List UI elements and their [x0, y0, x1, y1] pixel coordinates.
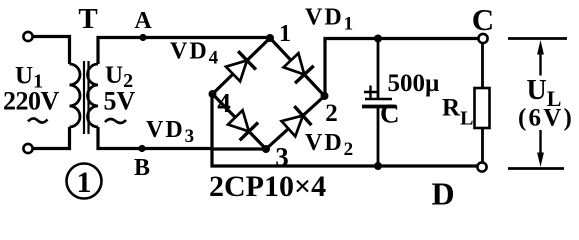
svg-text:3: 3	[275, 142, 289, 172]
svg-text:C: C	[472, 2, 494, 37]
diode VD3	[228, 110, 258, 140]
svg-text:D: D	[431, 176, 454, 212]
bridge edge 4-3	[213, 94, 267, 149]
bridge node 2 dot	[321, 92, 329, 100]
UL arrow up	[539, 48, 541, 76]
resistor RL body	[475, 88, 490, 128]
capacitor bottom junction dot	[374, 162, 382, 170]
wire node 2 riser and top rail to C	[325, 39, 479, 97]
diode VD1	[284, 53, 314, 83]
svg-text:2CP10×4: 2CP10×4	[209, 170, 326, 203]
figure number circle 1	[67, 164, 102, 199]
terminal D	[477, 162, 486, 171]
svg-text:1: 1	[279, 21, 291, 47]
terminal C	[478, 34, 487, 43]
svg-text:220V: 220V	[3, 87, 60, 116]
svg-text:C: C	[380, 99, 400, 129]
UL arrow down	[539, 130, 541, 159]
UL reference line top	[508, 37, 567, 40]
capacitor C bottom lead	[377, 107, 380, 167]
wire node 3 to junction	[212, 147, 266, 150]
bridge node 4 dot	[209, 90, 217, 98]
transformer core	[84, 61, 89, 134]
wire node 4 down and bottom rail to D	[212, 94, 478, 166]
diode VD2	[282, 106, 312, 136]
wire primary bottom lead	[33, 127, 70, 149]
label ac tilde secondary	[105, 119, 126, 123]
bridge node 3 dot	[262, 145, 270, 153]
resistor RL top lead	[481, 43, 484, 88]
node A junction dot	[139, 34, 146, 41]
capacitor polarity plus	[364, 86, 378, 99]
resistor RL bottom lead	[481, 128, 484, 163]
svg-text:B: B	[134, 155, 150, 181]
capacitor C top lead	[377, 39, 380, 99]
bridge edge 1-2	[270, 38, 325, 96]
capacitor top junction dot	[374, 35, 382, 43]
diode VD4	[226, 51, 256, 81]
transformer T primary winding	[70, 64, 81, 127]
wire secondary bottom through node B to junction	[98, 127, 212, 149]
bridge edge 1-4	[213, 38, 271, 94]
svg-text:2: 2	[325, 100, 338, 127]
svg-text:500µ: 500µ	[388, 70, 440, 97]
svg-text:5V: 5V	[104, 87, 136, 116]
UL reference line bottom	[508, 167, 564, 170]
svg-text:A: A	[134, 8, 152, 34]
svg-text:T: T	[78, 3, 97, 35]
bridge edge 3-2	[266, 96, 325, 149]
bridge node 1 dot	[266, 34, 274, 42]
svg-text:1: 1	[77, 166, 92, 199]
terminal bottom-left	[23, 144, 32, 153]
capacitor C plates	[365, 98, 392, 101]
terminal top-left	[23, 32, 32, 41]
node B junction dot	[138, 145, 145, 152]
wire primary top lead	[33, 37, 70, 65]
svg-text:4: 4	[217, 88, 231, 118]
svg-text:(6V): (6V)	[518, 105, 574, 132]
transformer T secondary winding	[88, 64, 98, 127]
label ac tilde primary	[28, 118, 48, 122]
wire secondary top to node A to bridge node 1	[98, 38, 270, 65]
